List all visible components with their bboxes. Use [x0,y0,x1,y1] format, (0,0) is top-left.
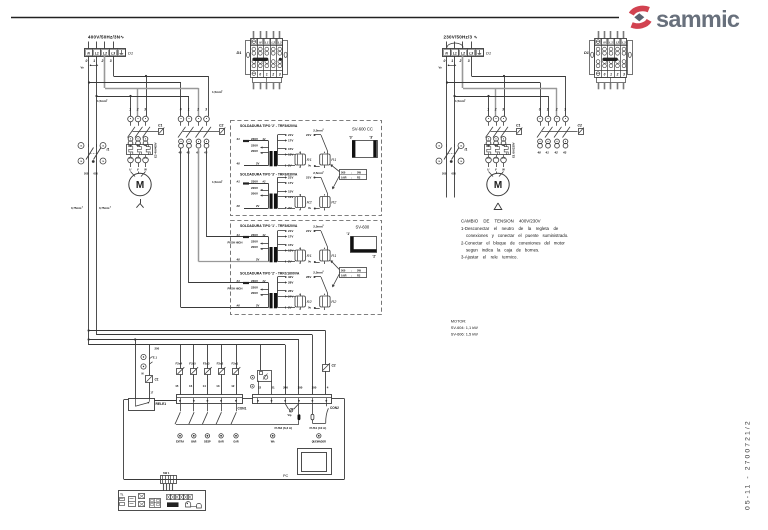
fuse FUS2 cartridge [275,404,301,430]
svg-text:M: M [136,180,144,191]
svg-text::: : [351,171,352,174]
node Ve right [439,64,457,70]
resistor R2 internal [285,293,312,311]
svg-text:200: 200 [442,172,447,176]
wire rail L3 left [113,56,115,76]
switch I1 right [436,143,467,176]
svg-text:21V: 21V [306,133,311,137]
svg-text:05-11 - 2700721/2: 05-11 - 2700721/2 [745,419,752,510]
node 40 return line [236,162,269,166]
svg-text:0.6R: 0.6R [341,175,347,179]
svg-text:C2: C2 [578,123,582,127]
svg-text:I1: I1 [107,148,110,152]
svg-text:43: 43 [203,151,208,155]
svg-text:D1: D1 [584,51,589,55]
wire rail L1 right [454,56,456,198]
wire H4 L1 distribution left [95,95,189,116]
svg-text:32V: 32V [288,275,293,279]
svg-text:L3: L3 [278,41,282,45]
svg-text:L3: L3 [622,41,626,45]
svg-text:41: 41 [545,151,550,155]
connector CON2 [253,395,340,411]
svg-text:15V: 15V [288,190,293,194]
svg-text:2: 2 [271,72,274,76]
secondary taps [278,229,294,264]
dip contacts below CON1 with common bus [175,404,299,425]
note CAMBIO DE TENSION [461,219,568,260]
svg-text:200V: 200V [251,245,258,249]
svg-text:1: 1 [93,59,95,63]
resistor R2 external [306,171,337,212]
svg-text:SW 1: SW 1 [163,471,170,475]
svg-text:R1: R1 [307,253,312,258]
svg-text:Vip: Vip [288,413,292,417]
svg-text:E.1: E.1 [153,356,158,360]
svg-text:21V: 21V [288,229,293,233]
resistor R2 external [306,271,337,312]
svg-text:0: 0 [86,59,88,63]
svg-text:13V: 13V [288,195,293,199]
svg-text:L1: L1 [609,41,613,45]
svg-text:R2: R2 [357,273,361,277]
svg-text:1: 1 [487,108,489,112]
terminal block D1 detail left [237,31,288,89]
svg-text:R2: R2 [331,199,337,204]
resistor R1 internal [285,151,312,169]
svg-text:0: 0 [539,108,541,112]
pcb outline [124,399,345,480]
svg-text:26V: 26V [288,289,293,293]
svg-text:17V: 17V [288,139,293,143]
svg-text:E1 6A/230V: E1 6A/230V [512,142,516,158]
svg-text:PUSH HIGH: PUSH HIGH [228,286,243,290]
bridge plate 3-3 [349,135,378,157]
svg-text:200: 200 [84,172,89,176]
transformer box PC bottom right [298,449,332,475]
resistor value table box2 [330,260,366,287]
motor M right with delta connection [487,163,509,210]
resistor R2 internal [285,193,312,211]
svg-text:230V: 230V [251,233,258,237]
svg-text:40: 40 [236,258,241,262]
transformer core #1 [269,178,278,209]
terminal block D1 detail right [584,31,633,89]
svg-text:3: 3 [110,59,112,63]
svg-text:5W: 5W [357,268,361,272]
node 200V tap line [251,245,269,250]
border frame top line [11,17,619,19]
svg-text:SV-600: SV-600 [356,225,370,230]
svg-text::: : [351,269,352,272]
svg-text:0: 0 [180,108,182,112]
svg-text:2V: 2V [256,304,260,308]
svg-text::: : [351,274,352,277]
wire H3 L2 distribution left gray [105,88,199,116]
led BAR [219,434,224,444]
fuse F2x2 [216,345,225,395]
svg-text:500: 500 [341,170,346,174]
svg-text:'2': '2' [373,255,377,259]
svg-text:C1: C1 [155,378,159,382]
label 0,75mm2 left pair [71,206,111,210]
transformer core #1 [269,277,278,308]
svg-text:BAR: BAR [219,441,224,444]
resistor R1 external [306,225,336,266]
node #1 input line [237,279,266,284]
wire rail N right [446,56,448,198]
svg-text:2-Conectar el bloque de conexi: 2-Conectar el bloque de conexiones del m… [461,241,565,246]
svg-text:1: 1 [547,108,549,112]
welding box SV-600 CC dashed [231,121,382,216]
fuse F2x5 [189,345,198,395]
svg-text:220V: 220V [251,186,258,190]
led QUEMADOR [312,434,326,444]
svg-text:21V: 21V [288,133,293,137]
secondary taps [278,133,294,168]
label 1,5mm2 right [455,99,466,103]
thermal relay E3 left [127,142,158,162]
svg-text:17V: 17V [288,181,293,185]
svg-text:3: 3 [623,72,625,76]
svg-text:2V: 2V [256,162,260,166]
fuse FUS1 cartridge [310,404,327,430]
node 220V tap line [251,186,269,191]
svg-text:FUS1 (10 A): FUS1 (10 A) [310,426,327,430]
svg-text:400V/50Hz/3N∿: 400V/50Hz/3N∿ [88,35,124,40]
svg-text:PUSH HIGH: PUSH HIGH [228,240,243,244]
svg-text:F2x1: F2x1 [232,362,239,366]
wire bus C control [88,338,299,398]
sammic logo [631,6,740,32]
svg-text:266: 266 [283,386,288,390]
svg-text:L3: L3 [469,51,473,55]
svg-text:R1: R1 [331,253,336,258]
svg-text:F2x3: F2x3 [203,362,210,366]
svg-text:2V: 2V [256,258,260,262]
svg-text:42: 42 [262,137,266,141]
svg-text:L2: L2 [616,41,620,45]
wire bus A 230 control [88,329,326,364]
svg-text:40: 40 [537,151,542,155]
svg-text:'3': '3' [370,135,374,139]
thermal relay E3 right [485,142,516,162]
node 41 input line [236,233,266,238]
svg-text:0: 0 [444,59,446,63]
resistor value table box1 [330,164,366,189]
welding box SV-600 dashed [231,221,382,315]
svg-text:TL: TL [120,492,124,496]
resistor R1 internal [285,247,312,265]
wire C2 output 43 to box2 [207,148,269,237]
svg-text:0v: 0v [308,260,312,264]
svg-text:42: 42 [262,233,266,237]
led GAR [233,434,239,444]
svg-text:D1: D1 [237,51,242,55]
secondary taps [278,176,294,211]
svg-text:L1: L1 [95,51,99,55]
svg-text:0: 0 [259,72,261,76]
svg-text:21: 21 [271,386,275,390]
svg-text:17V: 17V [288,235,293,239]
wire H2 N distribution left [88,81,181,116]
node 200V tap line [251,291,269,296]
transformer core 41 [269,135,278,166]
node #0 return line [237,304,260,308]
svg-text:100: 100 [298,386,303,390]
svg-text:L2: L2 [272,41,276,45]
svg-text:0v: 0v [308,306,312,310]
svg-text:0.6R: 0.6R [341,273,347,277]
svg-text:Ve: Ve [439,66,443,70]
svg-text:3: 3 [564,108,566,112]
pushbutton block 22-21 [250,345,271,394]
node numbers 0 1 2 3 right [444,59,470,63]
svg-text:200: 200 [155,347,160,351]
thermostat E1 contacts [141,354,158,375]
note MOTOR power ratings [451,319,478,337]
node 220V tap line [251,240,269,245]
contactor coil C1 bottom [146,376,159,399]
svg-text:3: 3 [468,59,470,63]
svg-text:WA: WA [271,441,275,444]
svg-text:600: 600 [452,172,457,176]
svg-text:C2: C2 [219,123,223,127]
secondary taps [278,275,294,310]
svg-text:0v: 0v [308,164,312,168]
svg-text:segun indica la caja de bornes: segun indica la caja de bornes. [466,248,539,253]
svg-text:2: 2 [82,207,83,209]
svg-text:SV-606: 1,5 kW: SV-606: 1,5 kW [451,332,478,337]
svg-text:F2x5: F2x5 [189,362,196,366]
svg-text:14: 14 [203,384,207,388]
label 1,5mm2 at riser [212,180,223,184]
svg-text:M: M [494,180,502,191]
svg-text:230V: 230V [251,279,258,283]
svg-text:L1: L1 [453,51,457,55]
led EXTRA [176,434,184,444]
svg-text:1: 1 [451,59,453,63]
contactor C2 right [537,108,584,155]
svg-text:PC: PC [283,474,289,478]
svg-text:D1: D1 [486,51,491,56]
svg-text:CON1: CON1 [238,407,247,411]
jumper puente N-L2 right [447,43,463,48]
svg-text:E3 4A/400V: E3 4A/400V [154,142,158,158]
svg-text:F2x2: F2x2 [217,362,224,366]
wire C2 output 40 to box2 [181,148,269,308]
svg-text:2: 2 [110,207,111,209]
svg-text:41: 41 [236,233,241,237]
svg-text:FUS2 (6,3 A): FUS2 (6,3 A) [275,426,293,430]
svg-text:1: 1 [610,72,612,76]
svg-text:#0: #0 [237,204,241,208]
svg-text:26V: 26V [306,275,311,279]
wire relay to CON1 [154,400,176,402]
svg-text:220V: 220V [251,144,258,148]
connector SW1 with ribbon [161,471,177,491]
svg-text:F2x4: F2x4 [176,362,183,366]
svg-text:230V: 230V [251,137,258,141]
svg-text:1-Desconectar el neutro de la: 1-Desconectar el neutro de la regleta de [461,226,559,231]
svg-text:Ve: Ve [81,66,85,70]
wire rail L2 left gray [104,56,106,88]
svg-text:EXTRA: EXTRA [176,441,184,444]
svg-text:0: 0 [604,72,606,76]
wire C2 output 41 to box2 [189,148,269,283]
contactor C2 left [178,108,226,155]
svg-text:1: 1 [129,108,131,112]
wire supply stubs right [447,42,472,49]
svg-text:R1: R1 [331,157,336,162]
control panel TCL [119,491,206,511]
connector CON1 [177,395,253,411]
svg-text:L3: L3 [111,51,115,55]
svg-text:#1: #1 [237,180,241,184]
svg-text:230V: 230V [251,180,258,184]
svg-text:0,75mm: 0,75mm [99,206,110,210]
fuse F2x3 [203,345,212,395]
svg-text:600: 600 [94,172,99,176]
svg-text:MOTOR:: MOTOR: [451,319,467,324]
wire rail N left [88,56,90,345]
svg-text:40: 40 [236,162,241,166]
svg-text:21V: 21V [306,176,311,180]
svg-text:28V: 28V [288,281,293,285]
node numbers 0 1 2 3 left [86,59,112,63]
contact Vip below CON2 [285,404,299,417]
svg-text:12: 12 [231,384,235,388]
wire bus D control [89,345,286,395]
contactor coil C2 bottom [323,363,336,394]
svg-text:2: 2 [459,59,462,63]
svg-text:SOLDADURA TIPO '1' - TRF3/620: SOLDADURA TIPO '1' - TRF3/620VA [240,224,298,228]
wire bus B control [97,335,313,395]
svg-text:D1: D1 [128,51,133,56]
svg-text:1: 1 [266,72,268,76]
svg-text:C2: C2 [332,364,336,368]
contactor C1 right [486,108,523,146]
svg-text:C1: C1 [158,123,162,127]
svg-text:15V: 15V [288,147,293,151]
led DESP [204,434,211,444]
svg-text:L2: L2 [103,51,107,55]
node 200V tap line [251,192,269,197]
svg-text:R2: R2 [331,299,337,304]
wire rail L3 right [471,56,473,76]
wire H1 L3 distribution right [472,75,566,116]
svg-text:CAMBIO DE TENSION 400V/230V: CAMBIO DE TENSION 400V/230V [461,219,541,224]
svg-text:I1: I1 [465,148,468,152]
svg-text:C1: C1 [516,123,520,127]
svg-text:3-Ajustar el rele termico.: 3-Ajustar el rele termico. [461,255,518,260]
svg-text:3: 3 [144,108,146,112]
svg-text:#1: #1 [237,279,241,283]
svg-text:21V: 21V [288,176,293,180]
resistor R1 external [306,129,336,170]
svg-text:2: 2 [555,108,558,112]
svg-text:R1: R1 [307,157,312,162]
svg-text:2: 2 [616,72,619,76]
terminal block D1 right [443,49,492,57]
terminal block D1 left [85,49,134,57]
led BAR [191,434,196,444]
svg-text:#0: #0 [237,304,241,308]
fuse F2x1 [231,345,240,395]
node Ve left [81,64,99,70]
wire rail L2 right gray [462,56,464,88]
svg-text:15: 15 [175,384,179,388]
svg-text:21V: 21V [306,229,311,233]
node 40 return line [236,258,260,262]
svg-text:1: 1 [188,108,190,112]
svg-text:200V: 200V [251,291,258,295]
svg-text:'3': '3' [349,135,353,139]
svg-text:16: 16 [189,384,193,388]
svg-text::: : [351,176,352,179]
svg-text:2V: 2V [256,204,260,208]
svg-text:L2: L2 [461,51,465,55]
wire rail L1 left [96,56,98,335]
node 200V tap line [251,149,269,154]
svg-text:2: 2 [196,108,199,112]
wire supply stubs left [89,42,114,49]
svg-text:M: M [142,373,144,376]
svg-text:230V/50Hz/3 ∿: 230V/50Hz/3 ∿ [444,35,478,40]
svg-text:100: 100 [312,386,317,390]
svg-text:500: 500 [341,268,346,272]
svg-text:2: 2 [136,108,139,112]
svg-text:SOLDADURA TIPO '2' - TRF3/620: SOLDADURA TIPO '2' - TRF3/620VA [240,124,298,128]
led WA [271,434,275,444]
transformer core 41 [269,231,278,262]
svg-text:SV-600 CC: SV-600 CC [352,127,373,132]
svg-text:15V: 15V [288,243,293,247]
svg-text:W: W [144,168,147,172]
contactor C1 left [128,108,165,146]
svg-text:41: 41 [236,137,241,141]
switch I1 left [78,143,109,176]
wire C2 output 42 to box2 gray [199,148,269,262]
motor M left with star connection [129,163,151,208]
svg-text:5W: 5W [357,170,361,174]
svg-text:R2: R2 [307,199,313,204]
wire H4 L1 distribution right [453,95,548,116]
svg-text:220V: 220V [251,286,258,290]
svg-text:DESP: DESP [204,441,211,444]
bridge plate 1-2 [347,232,377,259]
svg-text:R2: R2 [307,299,313,304]
svg-text:BAR: BAR [191,441,196,444]
svg-text:GAR: GAR [233,441,239,444]
svg-text:2: 2 [494,108,497,112]
svg-text:CON2: CON2 [330,406,339,410]
svg-text:40: 40 [178,151,183,155]
fuse F2x4 [175,345,184,395]
terminal labels above CON2 [258,386,329,390]
contact below CON2 right [326,404,329,424]
svg-text:0v: 0v [308,206,312,210]
node #1 input line [237,180,269,185]
svg-text:43: 43 [562,151,567,155]
svg-text:0,75mm: 0,75mm [71,206,82,210]
svg-text:L1: L1 [265,41,269,45]
svg-text:42: 42 [554,151,559,155]
svg-text:'1': '1' [347,232,351,236]
svg-text:R2: R2 [357,175,361,179]
wire H1 L3 distribution left [114,75,209,116]
svg-text:220V: 220V [251,240,258,244]
svg-text:conexiones y conectar el puent: conexiones y conectar el puente suminist… [466,233,568,238]
